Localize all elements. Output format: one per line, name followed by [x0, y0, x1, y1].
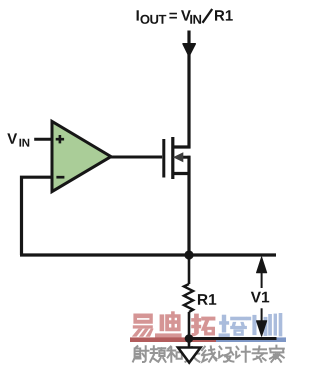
watermark tagline char 家 (grey) — [270, 346, 284, 362]
watermark tagline char 专 (grey) — [253, 346, 267, 361]
watermark logo char 训 (blue) — [246, 313, 282, 336]
V1 down arrow — [261, 308, 263, 322]
wire drain vertical from IOUT label to MOSFET drain — [187, 31, 190, 149]
resistor R1 zigzag — [184, 284, 193, 312]
watermark tagline char 线 (grey) — [202, 346, 217, 361]
V1 up arrow — [261, 273, 263, 289]
wire feedback: - input left then down to bottom rail — [22, 177, 53, 255]
MOSFET Q1 gate bar — [162, 139, 165, 178]
wire op-amp output to MOSFET gate — [109, 156, 162, 159]
wire bottom rail horizontal — [20, 253, 276, 256]
watermark tagline char 频 (grey) — [150, 346, 165, 362]
op-amp U1 — [52, 121, 111, 191]
watermark underline blue segment — [216, 337, 286, 342]
junction dot at ground node — [185, 334, 194, 343]
ground symbol — [178, 348, 201, 363]
watermark underline red segment — [130, 337, 216, 342]
wire VIN to op-amp + input — [34, 138, 52, 141]
watermark tagline char 计 (grey) — [236, 346, 250, 361]
watermark tagline char 和 (grey) — [167, 347, 182, 362]
watermark tagline char 天 (grey) — [185, 347, 200, 362]
op-amp + input marker — [56, 135, 64, 143]
V1 label — [251, 292, 269, 303]
node label IOUT = VIN/R1 — [137, 9, 233, 24]
op-amp - input marker — [56, 176, 64, 179]
current direction arrowhead on drain wire — [183, 44, 195, 56]
node V1 reference line — [189, 337, 277, 340]
node VIN label — [7, 133, 29, 146]
wire to ground symbol — [188, 339, 191, 348]
wire rail to resistor top — [188, 255, 191, 284]
watermark logo char 迪 (red) — [155, 311, 182, 337]
MOSFET Q1 channel bar — [171, 137, 174, 179]
watermark tagline char 射 (grey) — [133, 346, 149, 362]
wire resistor bottom to ground node — [188, 312, 191, 339]
wire source vertical down to bottom rail — [187, 156, 190, 255]
MOSFET Q1 drain tab — [173, 145, 191, 148]
watermark logo char 拓 (red) — [191, 314, 215, 337]
watermark tagline char 设 (grey) — [219, 347, 233, 362]
MOSFET Q1 source tab — [173, 172, 191, 175]
junction dot at source/rail — [184, 250, 193, 259]
watermark logo char 培 (blue) — [219, 315, 247, 337]
MOSFET Q1 body tab wire — [181, 156, 190, 159]
watermark logo char 易 (red) — [132, 314, 154, 337]
resistor R1 label — [198, 294, 216, 305]
MOSFET Q1 body arrowhead — [173, 152, 183, 162]
